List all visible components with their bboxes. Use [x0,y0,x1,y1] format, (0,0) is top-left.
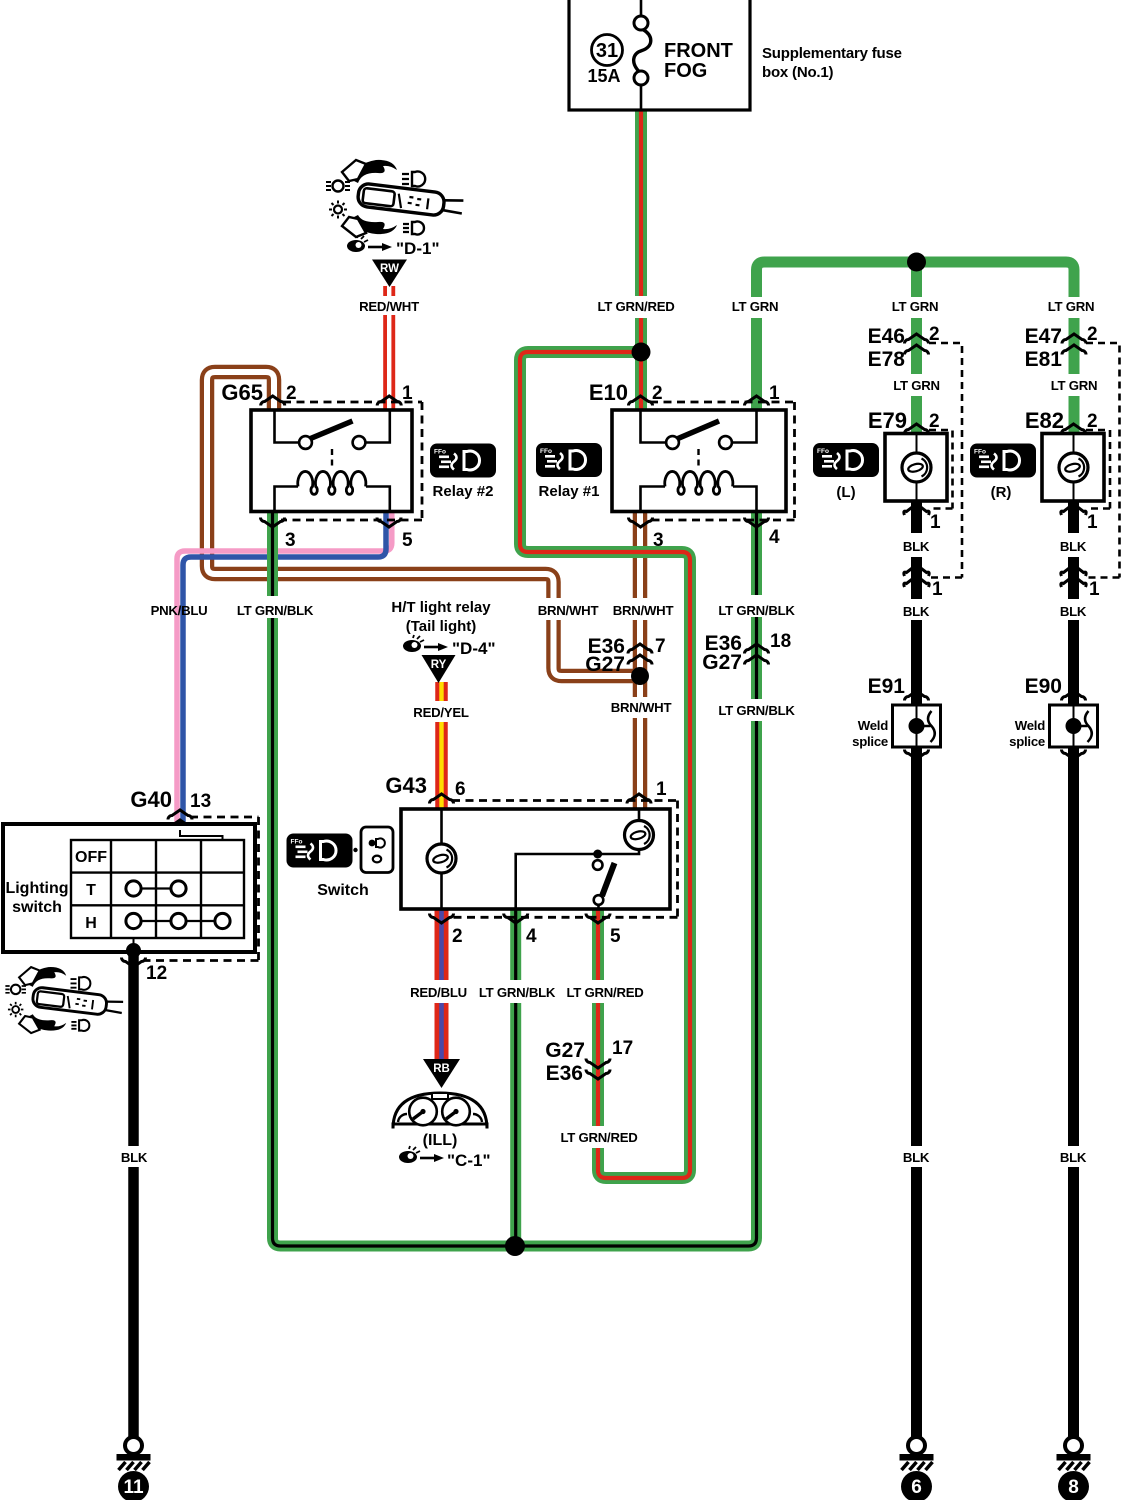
svg-text:1: 1 [656,779,667,800]
sun glyph [329,201,347,219]
svg-text:E91: E91 [868,675,906,698]
relay E10 (Relay #1) [612,402,795,520]
svg-text:Switch: Switch [317,882,369,899]
svg-text:Weld: Weld [1015,718,1045,733]
relay G65 (Relay #2) [251,402,422,520]
eye to D-4 [403,635,424,652]
svg-text:H: H [85,915,97,932]
svg-text:OFF: OFF [75,849,107,866]
svg-text:LT GRN/RED: LT GRN/RED [597,299,674,314]
fog light switch G43 [401,801,678,918]
svg-text:(Tail light): (Tail light) [406,618,477,635]
switch button dot [353,848,357,852]
svg-text:FRONT: FRONT [664,40,733,62]
G40 H row contacts [134,920,223,922]
junction dot on LT GRN/BLK bus [505,1236,525,1256]
connector G27/E36 pin17 [545,1038,633,1085]
wire RED/BLU from switch G43 pin2 to RB triangle [435,910,449,1060]
svg-text:12: 12 [146,963,167,984]
relay #1 fog icon [536,443,602,477]
svg-text:18: 18 [770,631,791,652]
svg-text:LT GRN/BLK: LT GRN/BLK [479,985,556,1000]
E79 inline BLK terminal [904,568,929,577]
svg-text:(ILL): (ILL) [423,1132,458,1149]
wire PNK/BLU from relay G65 pin5 to switch G40 pin13 [177,511,392,830]
svg-text:LT GRN: LT GRN [732,299,779,314]
weld splice E90 [1050,705,1098,747]
eye to C-1 [399,1146,420,1163]
svg-text:6: 6 [911,1477,922,1498]
svg-text:BLK: BLK [903,604,930,619]
svg-text:"D-1": "D-1" [396,239,440,258]
junction dot on LT GRN feed [907,253,926,272]
svg-text:LT GRN/BLK: LT GRN/BLK [237,603,314,618]
svg-text:7: 7 [655,636,666,657]
combination switch pictogram (top) [326,160,464,237]
G43 right bulb branch [516,809,639,909]
wire LT GRN/BLK net: E10 pin4, bus, G65 pin3, G43 pin4 [273,511,757,1246]
svg-text:(L): (L) [836,484,855,501]
svg-text:RY: RY [431,659,447,671]
G65 label and pins [221,380,413,551]
svg-text:LT GRN: LT GRN [892,299,939,314]
instrument cluster (ILL) icon [393,1093,487,1129]
wire RED/WHT from RW triangle to relay G65 pin1 [383,286,395,411]
G40 T row contacts [134,887,179,889]
wire LT GRN: E10 pin1, fog lamp feeds E79/E82 [757,262,1075,434]
svg-text:LT GRN/RED: LT GRN/RED [560,1130,637,1145]
svg-text:17: 17 [612,1038,633,1059]
svg-text:PNK/BLU: PNK/BLU [151,603,208,618]
wire BLK from switch G40 pin12 to ground 11 [128,951,139,1437]
svg-text:BLK: BLK [121,1150,148,1165]
fog lamp E79 (L) [885,343,962,578]
RW triangle [372,260,407,288]
E82 pin1 terminal [1061,507,1086,516]
svg-text:RED/YEL: RED/YEL [413,705,469,720]
svg-text:1: 1 [932,579,943,600]
wire LT GRN/RED: fuse box to E10 pin2 and loop to G43 pin5 [520,110,690,1178]
connector E46/E78 pin2 [868,324,940,371]
E79 pin1 terminal [904,507,929,516]
svg-text:(R): (R) [991,484,1012,501]
switch button panel [361,827,393,873]
RB triangle [423,1059,460,1088]
ground 11 [117,1437,151,1500]
svg-text:4: 4 [526,926,537,947]
svg-text:RED/BLU: RED/BLU [410,985,467,1000]
svg-text:BLK: BLK [1060,1150,1087,1165]
fog lamp E82 (R) [1042,343,1120,578]
svg-text:BLK: BLK [1060,604,1087,619]
E79 label and pin2 [905,424,929,434]
weld splice E91 [893,705,941,747]
upper headlight glyph [402,172,425,187]
svg-text:5: 5 [610,926,621,947]
svg-text:BRN/WHT: BRN/WHT [611,700,672,715]
connector E36/G27 pin18 [702,631,791,674]
svg-text:E36: E36 [546,1062,583,1085]
combination switch pictogram (by G40) [5,967,123,1033]
eye to D-1 [347,235,368,252]
junction dot at fuse drop / E10 branch [632,343,651,362]
wire BRN/WHT from relay E10 pin3 down to junction and switch G43 pin1 [633,511,648,808]
svg-text:E81: E81 [1025,348,1063,371]
svg-text:Supplementary fuse: Supplementary fuse [762,45,902,62]
svg-text:11: 11 [123,1477,144,1498]
E10 coil [641,487,666,512]
fuse number 31 [592,35,623,66]
svg-text:31: 31 [596,40,618,62]
svg-text:splice: splice [1009,734,1045,749]
fog beams glyph [326,181,350,192]
svg-text:splice: splice [852,734,888,749]
svg-text:BLK: BLK [903,1150,930,1165]
svg-text:E90: E90 [1025,675,1062,698]
svg-text:8: 8 [1068,1477,1079,1498]
G43 left bulb branch [440,809,443,909]
svg-text:G40: G40 [130,787,172,812]
svg-text:box (No.1): box (No.1) [762,64,834,81]
fuse 31 element [640,0,643,16]
svg-text:G65: G65 [221,380,263,405]
svg-text:3: 3 [653,530,664,551]
svg-text:LT GRN: LT GRN [1051,378,1098,393]
E82 label and pin2 [1062,424,1086,434]
svg-text:Lighting: Lighting [5,880,68,897]
svg-text:6: 6 [455,779,466,800]
svg-text:switch: switch [12,899,62,916]
svg-text:BLK: BLK [903,539,930,554]
svg-text:H/T light relay: H/T light relay [391,599,491,616]
junction dot BRN/WHT splice [631,667,649,685]
svg-text:4: 4 [769,527,780,548]
svg-text:15A: 15A [587,66,620,86]
svg-text:3: 3 [285,530,296,551]
lower headlight glyph [403,222,424,235]
svg-text:RED/WHT: RED/WHT [359,299,419,314]
switch fog icon [287,834,353,868]
svg-text:E82: E82 [1025,408,1064,433]
svg-text:BLK: BLK [1060,539,1087,554]
svg-text:LT GRN: LT GRN [893,378,940,393]
svg-text:LT GRN/BLK: LT GRN/BLK [718,703,795,718]
svg-text:BRN/WHT: BRN/WHT [538,603,599,618]
svg-text:"D-4": "D-4" [452,639,496,658]
upper hand flick [352,160,397,183]
RY triangle [422,655,456,683]
svg-text:E78: E78 [868,348,906,371]
svg-text:G27: G27 [585,653,625,676]
svg-text:LT GRN/BLK: LT GRN/BLK [718,603,795,618]
G40 contact table [71,840,244,938]
svg-text:1: 1 [930,512,941,533]
svg-text:13: 13 [190,791,211,812]
svg-text:RW: RW [380,263,399,275]
E10 contact [641,410,667,443]
stalk lever [357,183,464,219]
svg-text:"C-1": "C-1" [447,1151,491,1170]
G40 label and pins [122,787,212,984]
G40 pin13 internal link [180,830,223,841]
svg-text:G27: G27 [545,1039,585,1062]
svg-text:E47: E47 [1025,325,1062,348]
svg-text:G43: G43 [385,773,427,798]
G43 label and pins [385,773,667,947]
wire BLK fog lamp E79 to ground 6 [911,501,922,1437]
svg-text:5: 5 [402,530,413,551]
svg-text:E10: E10 [589,380,628,405]
svg-text:E79: E79 [868,408,907,433]
svg-text:Relay #2: Relay #2 [433,483,494,500]
G43 switch contact [593,850,602,859]
svg-text:LT GRN: LT GRN [1048,299,1095,314]
G65 contact [275,410,300,443]
svg-text:FOG: FOG [664,60,707,82]
wire RED/YEL from RY triangle to switch G43 pin6 [435,682,448,808]
svg-text:LT GRN/RED: LT GRN/RED [566,985,643,1000]
wire BRN from relay G65 pin2 loop to splice at node under E36/G27 [207,372,636,676]
connector E36/G27 pin7 [585,635,665,676]
svg-text:1: 1 [1089,579,1100,600]
E10 label and pins [589,380,780,551]
lighting switch G40 [3,817,259,961]
svg-text:2: 2 [452,926,463,947]
supplementary fuse box No.1 [569,0,902,110]
wire BLK fog lamp E82 to ground 8 [1068,501,1079,1437]
svg-text:1: 1 [1087,512,1098,533]
ground 6 [900,1437,934,1500]
svg-text:E46: E46 [868,325,905,348]
G65 coil [275,487,299,512]
lower hand flick [352,215,397,234]
ground 8 [1057,1437,1091,1500]
svg-text:Weld: Weld [858,718,888,733]
svg-text:T: T [86,882,96,899]
relay #2 fog icon [430,444,496,478]
connector E47/E81 pin2 [1025,324,1098,371]
svg-text:G27: G27 [702,651,742,674]
svg-text:BRN/WHT: BRN/WHT [613,603,674,618]
E82 inline BLK terminal [1061,568,1086,577]
G40 pin12 internal link [133,938,135,949]
svg-text:RB: RB [433,1063,450,1075]
svg-text:Relay #1: Relay #1 [539,483,600,500]
